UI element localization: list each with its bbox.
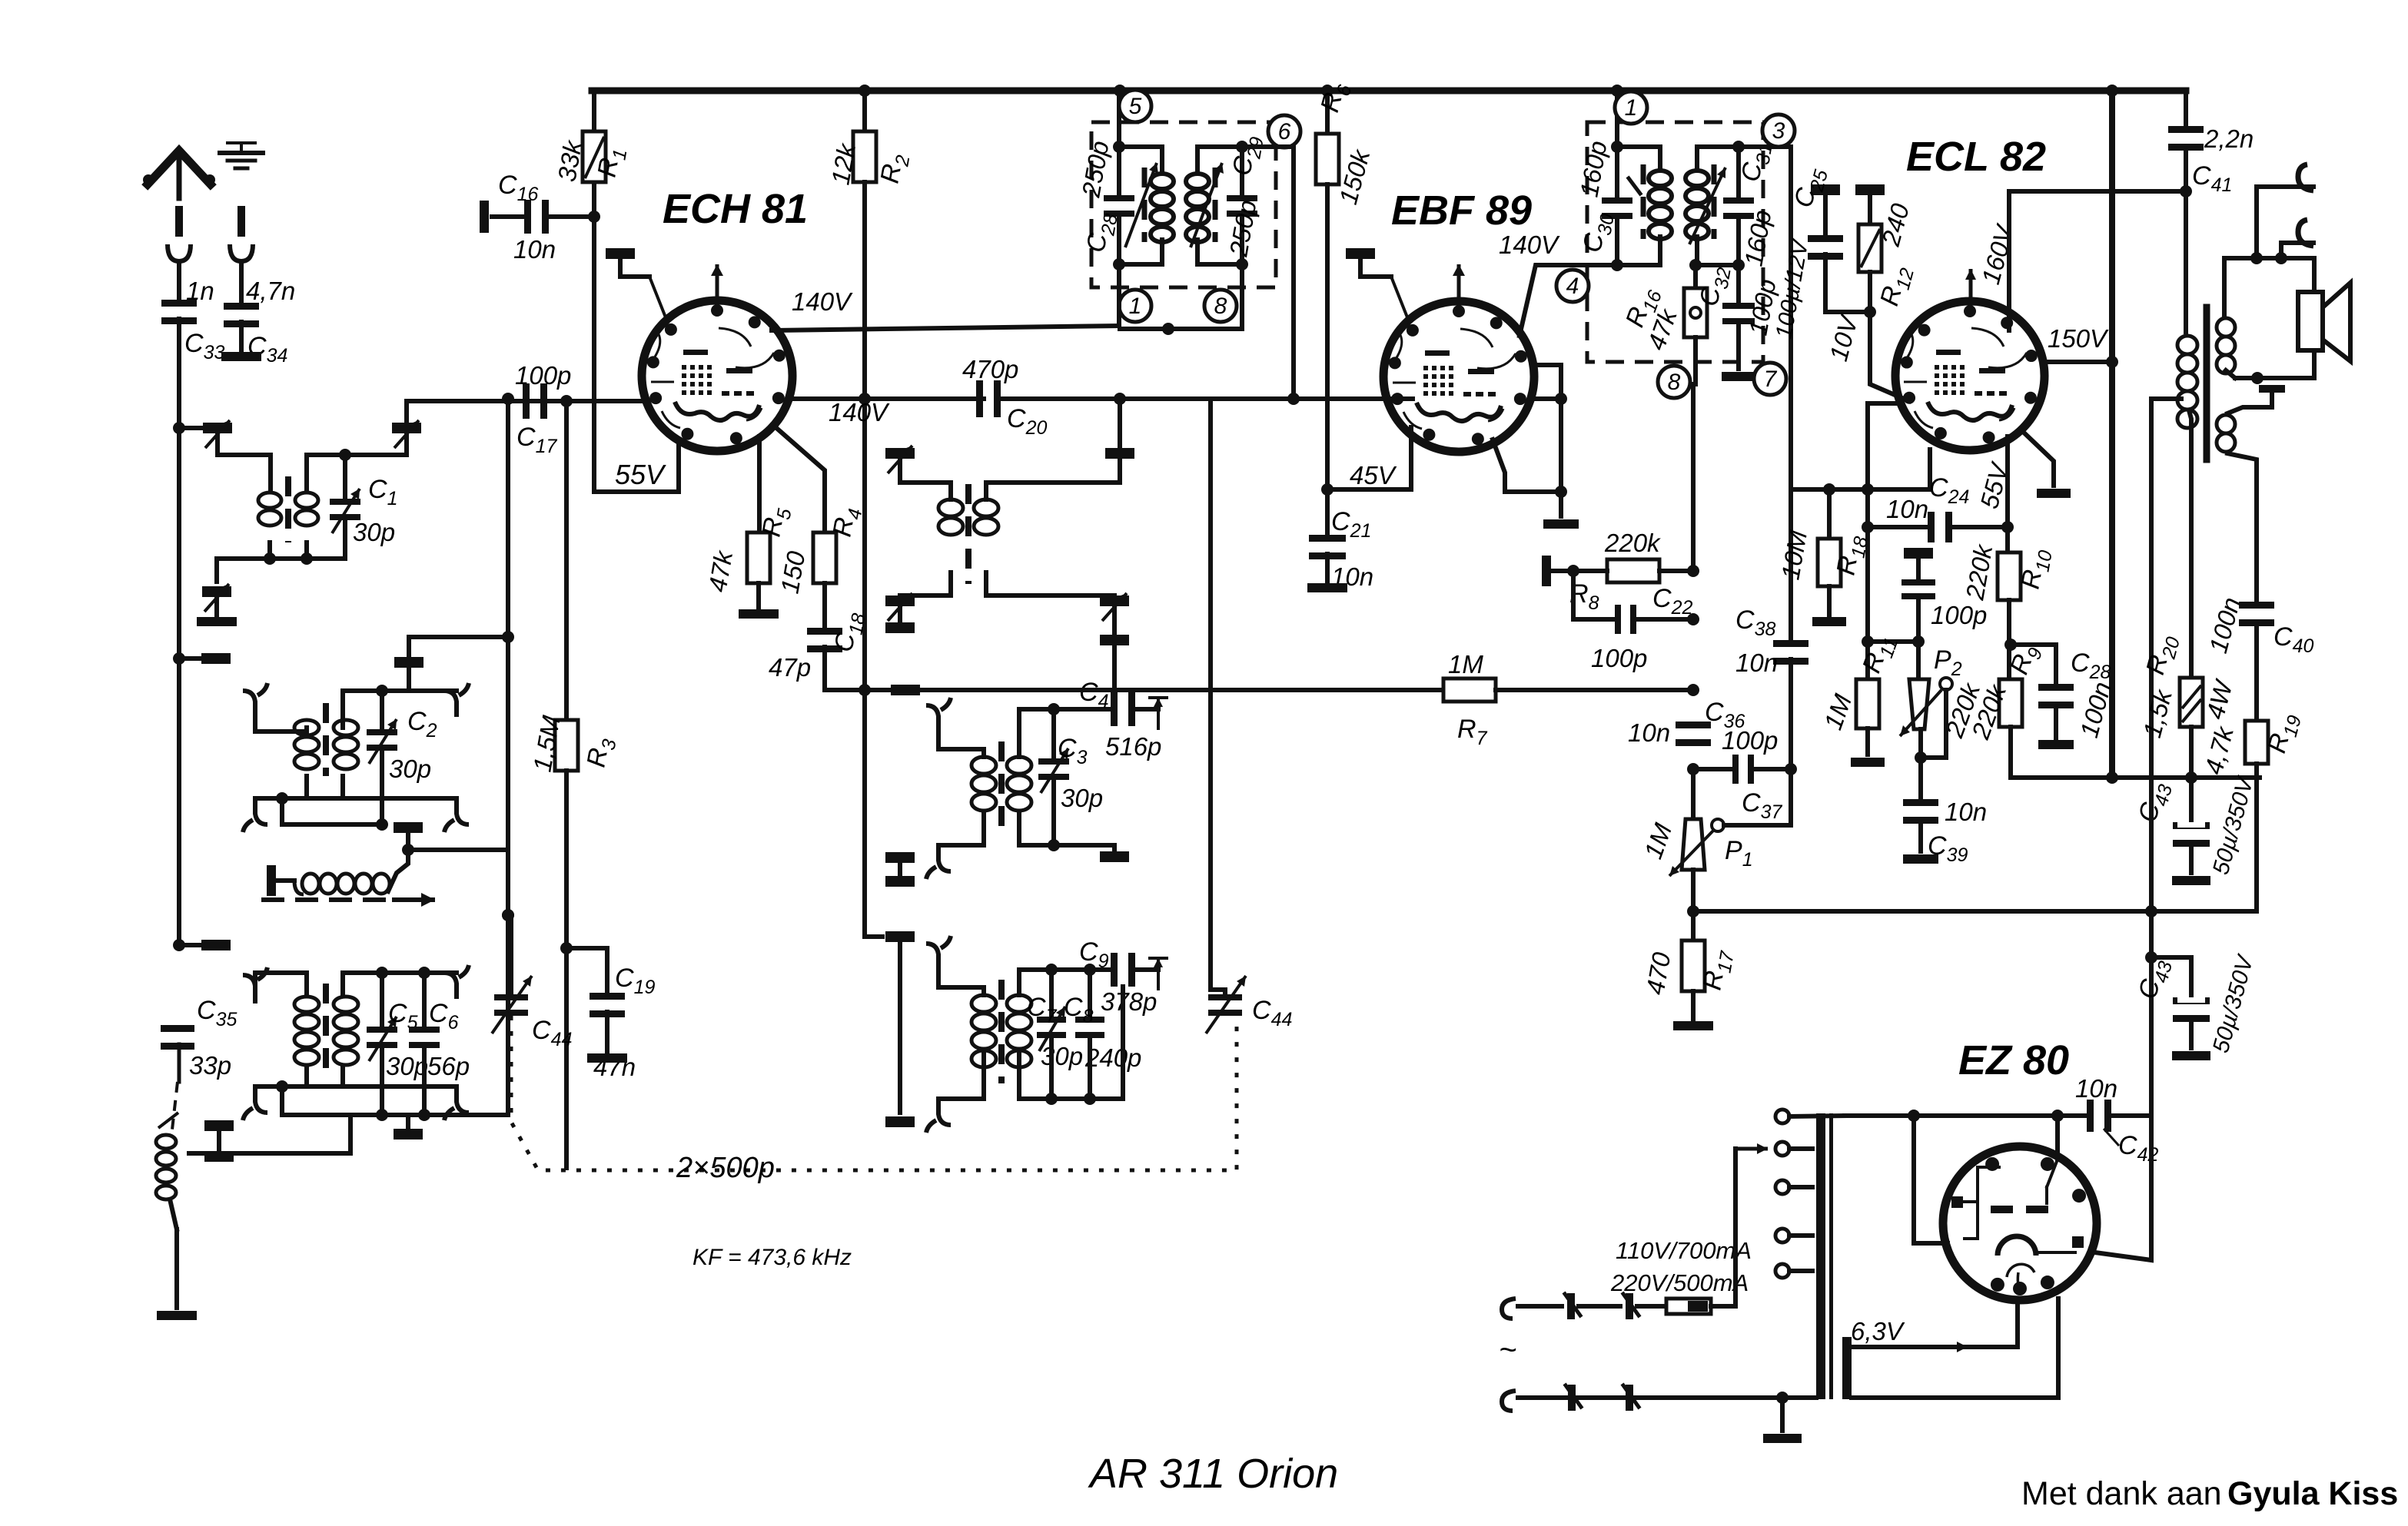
svg-text:30p: 30p [1041, 1042, 1083, 1070]
wire box1 pin8 link [1120, 264, 1242, 335]
node R2-plate [859, 393, 871, 405]
wire band collector vertical [502, 393, 514, 850]
svg-text:7: 7 [1764, 367, 1778, 392]
capacitor C36 10n [1628, 698, 1745, 747]
band bar pair switch [204, 1120, 234, 1162]
label EBF 89 [1391, 187, 1532, 234]
transformer T1 core [285, 476, 291, 542]
wire ECH81 g2 line [792, 396, 984, 401]
node R10-R9 [2004, 639, 2017, 651]
capacitor C7 trimmer [1027, 970, 1083, 1070]
ground earth input symbol [220, 143, 263, 304]
resistor R2 12k [825, 91, 914, 187]
wire T1 secondary bottom lead [304, 542, 309, 559]
core trimmer bf1 bottom [202, 584, 231, 612]
wire R1 top lead [592, 91, 596, 131]
svg-text:45V: 45V [1350, 461, 1397, 489]
mains switch contact 1 [1565, 1293, 1620, 1319]
svg-text:Met dank aan: Met dank aan [2021, 1475, 2222, 1512]
node osc-C44a [502, 909, 514, 921]
wire HT secondary top [1845, 1110, 2064, 1122]
speaker [2298, 283, 2350, 361]
svg-text:30p: 30p [389, 755, 431, 783]
wire grid pentode row [1862, 635, 1925, 648]
wire R6 down [1325, 184, 1330, 538]
node osc coil right [402, 844, 414, 856]
capacitor C9 378p [1079, 937, 1157, 1016]
label ECH 81 [663, 186, 808, 232]
wire osc vert to bf3 [506, 915, 510, 1115]
wire mains bottom [1518, 1395, 1816, 1400]
wire stub to band bar1 [179, 656, 201, 661]
svg-text:100p: 100p [1722, 726, 1778, 755]
node box2 bl [1611, 259, 1623, 271]
svg-text:EBF 89: EBF 89 [1391, 187, 1532, 234]
svg-text:6,3V: 6,3V [1851, 1317, 1905, 1345]
resistor R19 4.7k [2199, 710, 2306, 911]
potentiometer P2 220k [1900, 642, 1986, 741]
osc transformer B core [998, 741, 1005, 826]
wire R8 right [1659, 565, 1699, 577]
wire ECL82 cath right [2020, 429, 2071, 498]
tube ECH81 [642, 300, 792, 451]
wire bf2 lower link [282, 750, 382, 824]
resistor R10 220k [1960, 527, 2057, 679]
node bf1 bot left [264, 552, 276, 565]
svg-text:140V: 140V [829, 398, 890, 426]
resistor R1 33k [552, 131, 631, 184]
capacitor C28b 100n [2011, 645, 2117, 749]
wire heater bottom [1852, 1395, 2058, 1400]
tube EZ80 [1943, 1116, 2097, 1300]
transformer T1 secondary [295, 493, 318, 526]
wire EZ80 plate right [2095, 1116, 2151, 1260]
node ant-bar2 [173, 939, 185, 951]
wire BF2 sec link [394, 637, 508, 691]
svg-text:140V: 140V [792, 287, 853, 316]
ground EBF89 right [1543, 519, 1579, 529]
svg-text:470p: 470p [962, 355, 1018, 383]
primary tap 5 [1775, 1264, 1812, 1278]
capacitor C34 [224, 277, 295, 367]
transformer T2 core [323, 703, 329, 776]
wire P1 bottom [1687, 870, 1699, 917]
rail stub R12 [1855, 184, 1885, 224]
hook arrow bf2 bot-right [444, 798, 469, 832]
node ant-bf1 [173, 422, 185, 434]
primary tap 4 [1775, 1229, 1812, 1242]
band switch bar 2 [201, 940, 231, 950]
svg-text:1M: 1M [1448, 650, 1483, 678]
svg-text:100p: 100p [515, 361, 571, 390]
wire main B+ top bus [592, 88, 2186, 95]
label 2x500p [676, 1152, 775, 1184]
ground below C34 [221, 352, 261, 361]
tube EBF89 [1383, 301, 1534, 452]
gang link dashed [511, 1016, 1237, 1170]
capacitor C37 100p [1693, 726, 1797, 823]
capacitor C8 [1064, 964, 1141, 1072]
svg-text:220V/500mA: 220V/500mA [1610, 1269, 1749, 1296]
resistor R11 1M [1818, 630, 1903, 755]
hook arrow bf2 top-right [444, 683, 469, 717]
svg-text:516p: 516p [1105, 732, 1161, 761]
svg-text:6: 6 [1278, 119, 1291, 144]
svg-text:EZ 80: EZ 80 [1958, 1037, 2069, 1083]
core trimmer bf1 sec-top [392, 420, 421, 455]
svg-text:KF = 473,6 kHz: KF = 473,6 kHz [693, 1245, 852, 1270]
svg-text:8: 8 [1668, 370, 1681, 395]
primary tap 1 [1775, 1110, 1845, 1123]
osc transformer C secondary [1007, 995, 1031, 1067]
resistor R8 220k [1569, 529, 1661, 614]
primary tap 2 [1775, 1142, 1812, 1156]
ground R5 [739, 609, 779, 619]
band bar oscA bot-left [885, 593, 915, 633]
svg-text:Gyula Kiss: Gyula Kiss [2227, 1475, 2398, 1512]
osc transformer C primary [972, 995, 996, 1067]
node box1 tr [1236, 141, 1248, 153]
wire EZ80 cathode down [2018, 1299, 2058, 1398]
IF transformer 1 can (dashed) [1091, 122, 1276, 287]
capacitor C3 trimmer [1038, 709, 1103, 812]
svg-text:5: 5 [1129, 94, 1142, 119]
grid1 stub ECH81 [606, 248, 667, 321]
capacitor C39 10n [1903, 758, 1987, 866]
hook arrow oscC top-left [926, 936, 951, 970]
transformer T2 primary [294, 720, 319, 769]
wire R1 bottom long [592, 184, 596, 492]
wire EZ80 plate left [1914, 1116, 1948, 1243]
wire oscA bot-left [900, 572, 951, 595]
label 110V 700mA [1616, 1237, 1752, 1264]
capacitor C42 10n [2058, 1074, 2158, 1166]
wire oscA right down [1112, 645, 1117, 690]
wire grid line ECH81 [407, 399, 643, 403]
ground R18 [1812, 617, 1846, 626]
svg-text:1: 1 [1129, 294, 1142, 319]
wire R2 down long [862, 182, 867, 937]
wire speaker top [2224, 256, 2314, 260]
node box2 br [1689, 259, 1745, 271]
wire oscC bot [926, 987, 1123, 1133]
wire C35 to switch [172, 1082, 178, 1130]
node R2-mid [859, 684, 871, 696]
IF transformer 2 can (dashed) [1587, 122, 1763, 362]
capacitor C25 100u [1771, 164, 1843, 341]
label 140V plate [792, 287, 853, 316]
output transformer sec B [2217, 407, 2272, 604]
svg-text:33p: 33p [189, 1051, 231, 1080]
label 140V EBF [1499, 231, 1560, 259]
wire speaker right [2312, 258, 2317, 378]
capacitor C33 [161, 277, 224, 428]
mains switch contact 4 [1623, 1385, 1639, 1411]
transformer T3 secondary [334, 997, 358, 1065]
pin 3 box2 [1762, 114, 1795, 147]
label 140V screen [829, 398, 890, 426]
capacitor C41 2.2n [2168, 91, 2254, 197]
capacitor C31 160p [1723, 139, 1777, 268]
wire oscB bot [926, 779, 1114, 879]
node bf2 bot [276, 792, 288, 804]
hook arrow bf3 top-left [243, 967, 267, 1001]
band bar bf3 bottom [394, 1115, 423, 1140]
wire bf1 top [179, 426, 202, 430]
pin 8 box2 [1658, 366, 1690, 398]
variable capacitor C44a [492, 915, 572, 1050]
svg-text:10n: 10n [2075, 1074, 2117, 1103]
mains switch contact 3 [1566, 1385, 1581, 1411]
wire bf1 bottom down [214, 559, 219, 582]
capacitor C32 100p [1694, 264, 1781, 381]
output transformer core [2204, 307, 2210, 459]
wire oscC top-right [1019, 970, 1114, 995]
node bf2-C2 [376, 685, 388, 697]
band switch coil [156, 1113, 178, 1199]
svg-text:30p: 30p [1061, 784, 1103, 812]
transformer T2 secondary [334, 720, 358, 769]
IF1 coil right [1186, 147, 1242, 264]
node bf3 link1 [376, 1109, 388, 1121]
arrow tube EBF89 top [1453, 264, 1465, 315]
svg-text:47p: 47p [769, 653, 811, 682]
band bar oscC bottom [885, 942, 915, 1127]
wire oscA bot-right [986, 572, 1114, 595]
resistor R7 1M [919, 650, 1699, 749]
ground sec B [2259, 385, 2285, 407]
wire AVC long line [1693, 909, 2257, 914]
node box2 tl [1611, 141, 1623, 153]
svg-text:4: 4 [1566, 274, 1579, 299]
node bus-right-bus [2106, 85, 2118, 97]
output transformer primary [2151, 191, 2197, 778]
node tri-686 [1862, 521, 1874, 533]
ground R11 [1851, 758, 1885, 767]
svg-text:100p: 100p [1591, 644, 1647, 672]
wire bf1 bottom rail [217, 556, 345, 561]
svg-text:10n: 10n [1628, 718, 1670, 747]
ground C19 [587, 1053, 627, 1063]
arrow tube ECL82 top [1965, 221, 2019, 306]
node C37 [1687, 763, 1699, 775]
capacitor C1 trimmer [330, 475, 397, 546]
osc transformer B secondary [1007, 757, 1031, 811]
wire bf2 sec bottom [343, 796, 457, 801]
pin 4 box2 [1556, 270, 1589, 302]
resistor R12 240 [1858, 200, 1918, 312]
capacitor C35 [161, 996, 237, 1082]
hook arrow bf3 top-right [444, 965, 469, 999]
mains switch contact 2 [1623, 1293, 1665, 1319]
capacitor C38 10n [1735, 489, 1808, 769]
resistor R4 150 [775, 427, 866, 595]
wire oscA top-right [986, 483, 1120, 499]
band bar oscA top-left [885, 446, 915, 483]
wire P2 bottom [1915, 690, 1946, 764]
wire EBF89 diode cathode [1493, 440, 1567, 498]
label ECL 82 [1906, 134, 2046, 180]
node bus-box2 [1611, 85, 1623, 97]
pin 8 box1 [1204, 290, 1237, 322]
wire bf3 lower link [282, 1047, 508, 1115]
node oscC-C7 [1045, 964, 1058, 976]
node bf3 link2 [418, 1109, 430, 1121]
dashed arrow band switch [261, 893, 435, 907]
node bf2 link [376, 818, 388, 831]
node oscB-C3 [1048, 703, 1060, 715]
wire box1 to pin6 [1242, 144, 1294, 149]
capacitor C2 trimmer [367, 691, 437, 783]
band switch bar 1 [201, 653, 231, 664]
pin 7 box2 [1754, 363, 1786, 395]
wire bf3 to switch link [189, 1115, 350, 1153]
variable capacitor C44b [1206, 976, 1292, 1033]
band bar oscB right [1100, 845, 1129, 862]
node bf3 bot [276, 1080, 288, 1093]
capacitor C28 250p [1076, 138, 1134, 264]
node bus-box1 [1114, 85, 1126, 97]
node bus-R6 [1321, 85, 1334, 97]
hook arrow bf2 top-left [243, 683, 267, 717]
wire T1 primary bottom lead [267, 542, 272, 559]
wire EBF89 cathode [1327, 427, 1411, 489]
wire fuse to tap [1735, 1143, 1768, 1306]
svg-text:ECH 81: ECH 81 [663, 186, 808, 232]
svg-text:240p: 240p [1084, 1043, 1141, 1072]
resistor R5 47k [702, 436, 795, 607]
ground bf1 [197, 617, 237, 626]
capacitor C21 10n [1309, 507, 1373, 591]
label credit [2021, 1475, 2398, 1512]
output transformer sec A [2217, 258, 2235, 378]
band bar C18 [891, 685, 920, 695]
svg-text:3: 3 [1772, 118, 1785, 144]
node mains gnd [1776, 1392, 1789, 1404]
wire C20 to right [998, 396, 1413, 401]
capacitor C20 470p [962, 355, 1047, 439]
svg-text:~: ~ [1499, 1333, 1516, 1367]
resistor R9 220k [1965, 641, 2047, 778]
wire oscC top-left [938, 970, 984, 995]
wire switch to ground [171, 1203, 177, 1308]
hook arrow bf3 bot-right [444, 1086, 469, 1120]
cathode loop 55V [594, 440, 679, 492]
svg-text:10n: 10n [513, 235, 556, 264]
svg-text:ECL 82: ECL 82 [1906, 134, 2046, 180]
capacitor C43b electrolytic [2133, 951, 2259, 1060]
osc transformer A secondary [974, 499, 998, 535]
ground mains [1763, 1398, 1802, 1443]
wire C44b [1211, 937, 1225, 995]
svg-text:4,7n: 4,7n [246, 277, 295, 305]
node c20-1457 [1114, 393, 1126, 405]
node ant-bar1 [173, 652, 185, 665]
svg-text:2×500p: 2×500p [676, 1152, 775, 1184]
capacitor C6 [409, 973, 470, 1080]
capacitor C30 160p [1574, 138, 1632, 265]
wire R8 left [1542, 556, 1607, 586]
svg-text:30p: 30p [353, 518, 395, 546]
primary tap 3 [1775, 1180, 1812, 1194]
wire ECL82 plate up [2009, 191, 2186, 330]
wire oscB top-left [938, 731, 984, 757]
capacitor C19 [560, 942, 655, 1081]
osc transformer B primary [972, 757, 996, 811]
wire osc link right [408, 848, 508, 852]
transformer T1 primary [258, 493, 281, 526]
svg-text:56p: 56p [427, 1052, 470, 1080]
wire box2 pin3 [1739, 144, 1791, 149]
wire heater 6.3V [1848, 1317, 2018, 1352]
capacitor C22 100p [1573, 571, 1699, 672]
wire ECH81 plate to box1 [772, 326, 1119, 330]
wire bf1 primary top [218, 433, 271, 492]
node c20-1683 [1287, 393, 1300, 405]
potentiometer P1 1M [1639, 769, 1753, 876]
capacitor C24 10n [1868, 436, 2014, 542]
wire oscA top-left [900, 483, 951, 499]
capacitor C29 250p [1224, 133, 1268, 264]
hook arrow oscB top-left [926, 698, 951, 731]
band bar oscA top-right [1105, 399, 1134, 483]
wire box1 vert left [1117, 122, 1121, 326]
node bf1 sec-C1 [339, 449, 351, 461]
wire bf3 top rail [255, 973, 457, 1001]
pin 1 box2 [1615, 91, 1647, 124]
wire bf2 bottom rail [255, 776, 343, 798]
pin 5 box1 [1119, 90, 1151, 122]
IF2 coil left [1617, 147, 1672, 265]
wire bf1 secondary up to grid line [404, 401, 409, 423]
core trimmer bf1 top-left [203, 420, 232, 448]
osc transformer A primary [938, 499, 963, 535]
IF2 coil right [1686, 147, 1739, 265]
svg-text:10n: 10n [1886, 495, 1928, 523]
osc transformer C core [998, 980, 1005, 1083]
svg-text:150V: 150V [2048, 324, 2109, 353]
resistor R17 470 [1640, 911, 1739, 1019]
IF1 coil left [1119, 147, 1174, 264]
resistor R18 10M [1775, 489, 1872, 615]
svg-text:140V: 140V [1499, 231, 1560, 259]
power transformer core [1816, 1113, 1852, 1399]
wire antenna down line [177, 428, 181, 945]
wire C38 top link [1791, 450, 1930, 496]
node osc-bf3 [502, 909, 514, 921]
ground C21 [1307, 583, 1347, 592]
band bar osc bottom-left [885, 931, 915, 942]
mains plug bottom [1499, 1333, 1516, 1411]
capacitor C5 trimmer [367, 973, 428, 1080]
capacitor C16 [480, 171, 587, 264]
wire down right [2145, 778, 2157, 1116]
wire bf3 bottom rail [255, 1068, 343, 1086]
node tri-637 [1862, 483, 1874, 496]
svg-text:1n: 1n [186, 277, 214, 305]
node box1 bl [1113, 258, 1125, 270]
ground C39 [1903, 854, 1938, 864]
label 220V 500mA [1610, 1269, 1749, 1296]
svg-text:100p: 100p [1931, 601, 1987, 629]
wire EBF89 anode2 [1533, 365, 1567, 516]
svg-text:8: 8 [1214, 294, 1227, 319]
pin 1 box1 [1119, 290, 1151, 322]
node R1-C16 [588, 211, 600, 223]
svg-text:2,2n: 2,2n [2204, 124, 2254, 153]
resistor R6 150k [1315, 79, 1376, 207]
ground R17 [1673, 1021, 1713, 1030]
